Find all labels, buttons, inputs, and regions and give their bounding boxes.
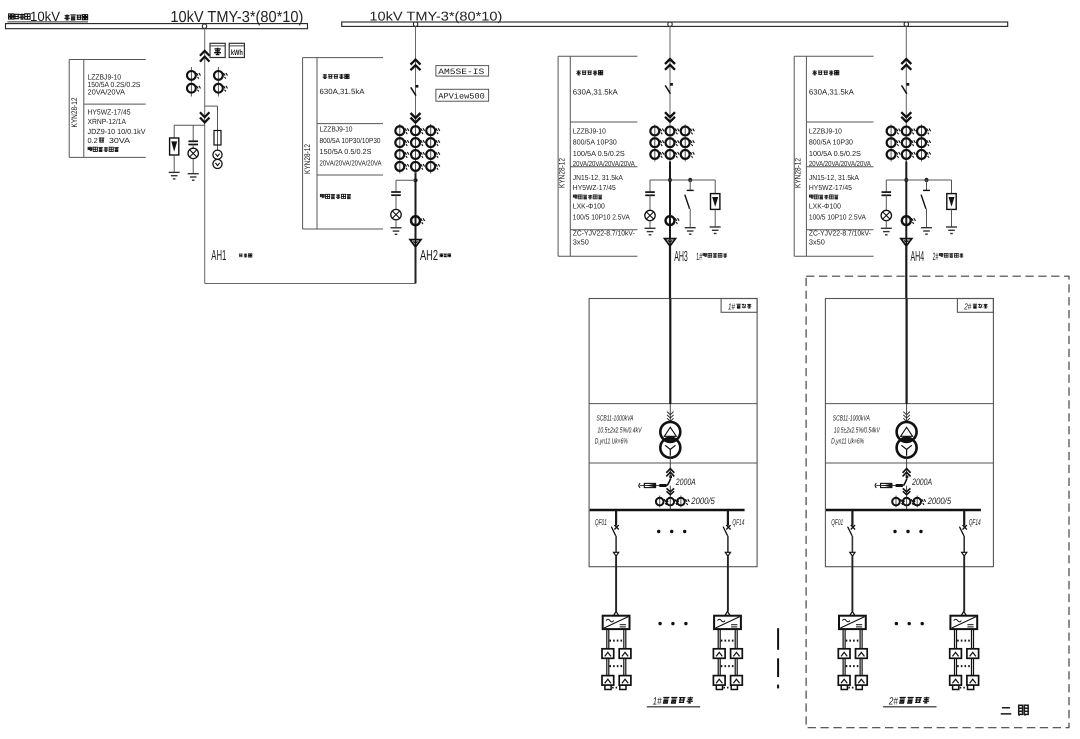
svg-text:ZC-YJV22-8.7/10kV-: ZC-YJV22-8.7/10kV- (809, 228, 872, 237)
svg-text:2000A: 2000A (675, 477, 696, 487)
svg-text:LZZBJ9-10: LZZBJ9-10 (573, 126, 606, 135)
svg-text:2#: 2# (933, 251, 939, 263)
svg-text:2#: 2# (964, 302, 972, 312)
svg-text:KYN28-12: KYN28-12 (793, 158, 802, 188)
svg-text:2000/5: 2000/5 (927, 496, 952, 506)
svg-text:LZZBJ9-10: LZZBJ9-10 (320, 124, 353, 133)
svg-text:10kV TMY-3*(80*10): 10kV TMY-3*(80*10) (170, 9, 303, 26)
svg-text:SCB11-1000kVA: SCB11-1000kVA (833, 413, 870, 422)
svg-text:800/5A 10P30: 800/5A 10P30 (573, 138, 617, 147)
svg-text:AH1: AH1 (211, 248, 226, 264)
svg-text:KYN28-12: KYN28-12 (303, 144, 312, 174)
svg-text:QF14: QF14 (732, 517, 744, 527)
svg-text:0.2: 0.2 (88, 136, 98, 145)
svg-text:3x50: 3x50 (809, 238, 825, 247)
svg-text:100/5 10P10 2.5VA: 100/5 10P10 2.5VA (809, 213, 866, 222)
svg-text:20VA/20VA: 20VA/20VA (88, 88, 126, 97)
svg-text:JDZ9-10 10/0.1kV: JDZ9-10 10/0.1kV (88, 127, 146, 136)
svg-text:AH3: AH3 (674, 249, 688, 265)
svg-text:HY5WZ-17/45: HY5WZ-17/45 (573, 183, 616, 192)
svg-text:HY5WZ-17/45: HY5WZ-17/45 (809, 183, 852, 192)
svg-text:JN15-12, 31.5kA: JN15-12, 31.5kA (573, 173, 623, 182)
svg-text:1#: 1# (728, 302, 735, 312)
svg-text:AM5SE-IS: AM5SE-IS (438, 68, 484, 77)
svg-text:D,yn11 Uk=6%: D,yn11 Uk=6% (831, 437, 864, 446)
svg-text:150/5A 0.5/0.2S: 150/5A 0.5/0.2S (320, 147, 372, 156)
svg-text:800/5A 10P30: 800/5A 10P30 (809, 138, 853, 147)
svg-text:1#: 1# (696, 251, 702, 263)
svg-text:10.5±2x2.5%/0.54kV: 10.5±2x2.5%/0.54kV (834, 425, 881, 434)
svg-text:2000A: 2000A (911, 477, 932, 487)
svg-text:630A,31.5kA: 630A,31.5kA (320, 87, 366, 96)
svg-text:AH4: AH4 (911, 249, 925, 265)
svg-text:20VA/20VA/20VA/20VA: 20VA/20VA/20VA/20VA (573, 159, 635, 168)
svg-text:100/5A 0.5/0.2S: 100/5A 0.5/0.2S (809, 149, 861, 158)
svg-text:kWh: kWh (231, 48, 243, 57)
svg-text:630A,31.5kA: 630A,31.5kA (573, 88, 619, 97)
svg-text:3x50: 3x50 (573, 238, 589, 247)
svg-text:100/5A 0.5/0.2S: 100/5A 0.5/0.2S (573, 149, 625, 158)
svg-text:100/5 10P10 2.5VA: 100/5 10P10 2.5VA (573, 213, 630, 222)
svg-text:10kV: 10kV (30, 9, 60, 24)
svg-text:XRNP-12/1A: XRNP-12/1A (88, 117, 127, 126)
svg-text:D,yn11 Uk=6%: D,yn11 Uk=6% (595, 437, 628, 446)
svg-text:QF14: QF14 (969, 517, 981, 527)
svg-text:2#: 2# (888, 695, 898, 707)
svg-text:KYN28-12: KYN28-12 (557, 158, 566, 188)
svg-text:QF01: QF01 (831, 517, 843, 527)
svg-text:JN15-12, 31.5kA: JN15-12, 31.5kA (809, 173, 859, 182)
svg-text:KYN28-12: KYN28-12 (70, 97, 79, 127)
svg-text:LXK-Φ100: LXK-Φ100 (573, 202, 605, 211)
svg-text:HY5WZ-17/45: HY5WZ-17/45 (88, 108, 131, 117)
svg-text:10kV TMY-3*(80*10): 10kV TMY-3*(80*10) (369, 9, 502, 24)
svg-text:ZC-YJV22-8.7/10kV-: ZC-YJV22-8.7/10kV- (573, 228, 636, 237)
svg-text:AH2: AH2 (420, 248, 438, 264)
svg-text:LXK-Φ100: LXK-Φ100 (809, 202, 841, 211)
svg-text:APView500: APView500 (438, 93, 485, 102)
svg-text:20VA/20VA/20VA/20VA: 20VA/20VA/20VA/20VA (809, 159, 871, 168)
svg-text:2000/5: 2000/5 (690, 496, 715, 506)
svg-text:10.5±2x2.5%/0.4kV: 10.5±2x2.5%/0.4kV (598, 425, 643, 434)
svg-text:1#: 1# (653, 695, 662, 707)
svg-text:SCB11-1000kVA: SCB11-1000kVA (597, 413, 634, 422)
svg-text:800/5A 10P30/10P30: 800/5A 10P30/10P30 (320, 136, 381, 145)
svg-text:30VA: 30VA (109, 136, 130, 145)
svg-text:LZZBJ9-10: LZZBJ9-10 (809, 126, 842, 135)
svg-text:20VA/20VA/20VA/20VA: 20VA/20VA/20VA/20VA (320, 159, 382, 168)
svg-text:QF01: QF01 (595, 517, 607, 527)
svg-text:630A,31.5kA: 630A,31.5kA (809, 88, 855, 97)
